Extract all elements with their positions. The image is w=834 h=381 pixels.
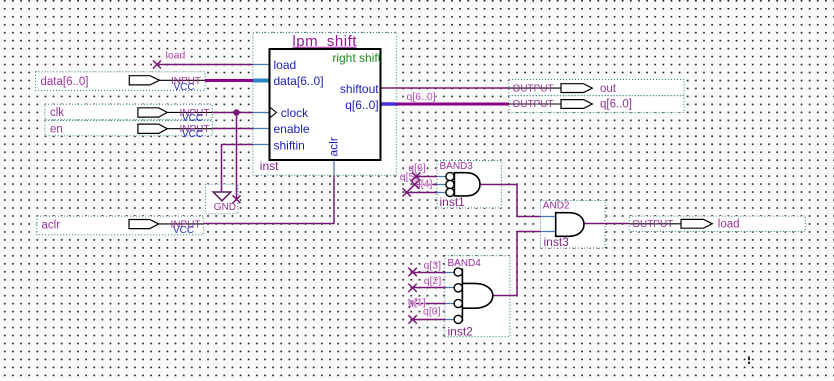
selection box input aclr [37, 216, 203, 235]
svg-text:q[0]: q[0] [423, 306, 441, 318]
svg-text:q[1]: q[1] [408, 297, 426, 309]
selection box input en [45, 120, 212, 135]
selection box gate BAND4 [445, 256, 510, 337]
selection box input data[6..0] [36, 72, 206, 91]
wire band4 input 3 [413, 303, 454, 305]
svg-text:load: load [166, 49, 186, 61]
svg-text:inst: inst [260, 159, 279, 173]
selection box output out [509, 80, 684, 96]
wire q bus [381, 102, 509, 106]
pin x band4 input 1 [408, 268, 416, 276]
svg-text:inst2: inst2 [448, 325, 474, 339]
input pin aclr [42, 219, 204, 236]
pin x band3 input 2 [411, 180, 419, 188]
svg-text:q[3]: q[3] [424, 259, 442, 271]
wire shiftin-to-gnd net [222, 145, 269, 192]
wire en net [212, 128, 268, 130]
svg-text:enable: enable [274, 122, 310, 136]
cursor mark [748, 357, 750, 365]
selection box output load [629, 216, 805, 231]
gate AND2 inst3 [541, 201, 585, 250]
svg-text:q[6..0]: q[6..0] [600, 99, 632, 111]
input pin clk [50, 107, 212, 124]
selection box ground [206, 184, 238, 214]
selection box input clk [45, 104, 212, 120]
svg-text:shiftout: shiftout [340, 82, 379, 96]
svg-text:inst3: inst3 [544, 235, 570, 249]
svg-text:en: en [50, 123, 63, 135]
svg-text:OUTPUT: OUTPUT [513, 83, 554, 94]
svg-text:VCC: VCC [182, 113, 203, 124]
pin x band3 input 1 [412, 172, 420, 180]
selection box gate BAND3 [437, 161, 501, 208]
wire band4 input 1 [413, 272, 455, 274]
svg-text:VCC: VCC [173, 225, 194, 236]
pin x band3 input 3 [403, 188, 411, 196]
svg-text:load: load [718, 219, 740, 231]
wire aclr net [203, 160, 334, 223]
svg-text:BAND3: BAND3 [440, 161, 474, 172]
svg-text:aclr: aclr [327, 137, 341, 156]
wire band3 input 2 [413, 184, 446, 186]
wire band4 input 2 [413, 287, 455, 289]
output pin out [509, 83, 617, 95]
wire band4 input 4 [413, 319, 455, 321]
wire band4-to-and2 [493, 232, 541, 296]
wire data bus [205, 79, 269, 82]
svg-text:inst1: inst1 [440, 195, 466, 209]
input pin data[6..0] [41, 76, 206, 93]
svg-text:VCC: VCC [174, 82, 195, 93]
svg-text:OUTPUT: OUTPUT [632, 219, 673, 230]
wire band3 input 1 [414, 176, 446, 178]
svg-text:aclr: aclr [42, 220, 61, 232]
junction clk node [233, 109, 239, 115]
svg-text:VCC: VCC [182, 129, 203, 140]
svg-text:GND: GND [214, 202, 236, 213]
selection box gate AND2 [541, 201, 606, 249]
input pin en [50, 123, 212, 140]
wire clk net [212, 113, 268, 204]
wire load net [153, 61, 269, 69]
pin x band4 input 2 [408, 284, 416, 292]
svg-text:q[2]: q[2] [424, 275, 442, 287]
ground GND [213, 192, 236, 213]
svg-text:clock: clock [281, 106, 309, 120]
svg-text:right shift: right shift [332, 51, 381, 65]
svg-text:shiftin: shiftin [274, 138, 305, 152]
pin x band4 input 4 [408, 315, 416, 323]
wire shiftout net [381, 87, 509, 89]
svg-text:AND2: AND2 [543, 201, 570, 212]
svg-text:BAND4: BAND4 [448, 258, 482, 269]
svg-text:q[6..0]: q[6..0] [407, 91, 436, 103]
svg-text:data[6..0]: data[6..0] [41, 76, 89, 88]
gate BAND3 inst1 [440, 161, 481, 209]
svg-text:out: out [600, 83, 617, 95]
selection box block lpm_shift [253, 33, 396, 176]
svg-text:q[6..0]: q[6..0] [345, 98, 378, 112]
gate BAND4 inst2 [448, 258, 493, 338]
svg-text:data[6..0]: data[6..0] [274, 74, 324, 88]
wire and2-to-load [584, 223, 629, 225]
selection box output q[6..0] [509, 96, 684, 113]
svg-text:OUTPUT: OUTPUT [513, 99, 554, 110]
svg-text:clk: clk [50, 107, 64, 119]
output pin q[6..0] [509, 99, 632, 111]
pin x band4 input 3 [409, 299, 417, 307]
svg-text:load: load [274, 58, 297, 72]
output pin load [629, 219, 739, 231]
wire band3 input 3 [405, 192, 446, 194]
block U lpm_shift [270, 33, 382, 160]
wire band3-to-and2 [480, 185, 541, 217]
